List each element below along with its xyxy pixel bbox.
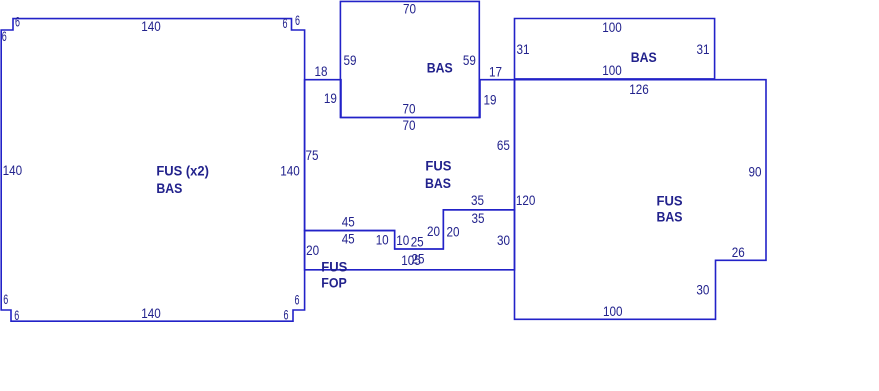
- svg-text:45: 45: [342, 213, 355, 229]
- svg-text:59: 59: [463, 52, 476, 68]
- svg-text:100: 100: [602, 62, 622, 78]
- svg-text:30: 30: [696, 281, 709, 297]
- svg-text:126: 126: [629, 81, 649, 97]
- svg-text:6: 6: [283, 15, 288, 31]
- svg-text:26: 26: [732, 244, 745, 260]
- svg-text:BAS: BAS: [425, 175, 451, 191]
- svg-text:6: 6: [3, 291, 8, 307]
- svg-text:FUS (x2): FUS (x2): [156, 163, 209, 179]
- svg-text:19: 19: [484, 92, 497, 108]
- svg-text:70: 70: [403, 101, 416, 117]
- svg-text:10: 10: [396, 232, 409, 248]
- svg-text:100: 100: [603, 303, 623, 319]
- svg-text:140: 140: [141, 18, 161, 34]
- svg-text:18: 18: [315, 63, 328, 79]
- svg-text:19: 19: [324, 90, 337, 106]
- svg-text:10: 10: [376, 232, 389, 248]
- svg-text:FUS: FUS: [321, 259, 347, 275]
- svg-text:FUS: FUS: [657, 193, 683, 209]
- svg-text:BAS: BAS: [156, 180, 182, 196]
- svg-text:120: 120: [516, 192, 536, 208]
- svg-text:BAS: BAS: [631, 49, 657, 65]
- svg-text:6: 6: [15, 14, 20, 30]
- svg-text:35: 35: [471, 192, 484, 208]
- svg-text:75: 75: [306, 147, 319, 163]
- svg-text:6: 6: [14, 307, 19, 323]
- svg-text:31: 31: [697, 41, 710, 57]
- svg-text:FUS: FUS: [425, 158, 451, 174]
- svg-text:140: 140: [280, 162, 300, 178]
- svg-text:100: 100: [602, 19, 622, 35]
- svg-text:90: 90: [749, 163, 762, 179]
- svg-text:30: 30: [497, 232, 510, 248]
- svg-text:BAS: BAS: [427, 60, 453, 76]
- svg-text:45: 45: [342, 231, 355, 247]
- svg-text:140: 140: [3, 162, 23, 178]
- svg-text:6: 6: [284, 306, 289, 322]
- svg-text:20: 20: [427, 223, 440, 239]
- svg-text:20: 20: [447, 223, 460, 239]
- svg-text:59: 59: [344, 52, 357, 68]
- svg-text:FOP: FOP: [321, 275, 347, 291]
- svg-text:105: 105: [401, 252, 421, 268]
- svg-text:70: 70: [403, 117, 416, 133]
- svg-text:65: 65: [497, 137, 510, 153]
- svg-text:35: 35: [472, 210, 485, 226]
- svg-text:6: 6: [2, 28, 7, 44]
- svg-text:31: 31: [517, 41, 530, 57]
- svg-text:20: 20: [306, 242, 319, 258]
- svg-text:140: 140: [141, 305, 161, 321]
- svg-text:6: 6: [295, 12, 300, 28]
- svg-text:BAS: BAS: [657, 209, 683, 225]
- svg-text:17: 17: [489, 64, 502, 80]
- svg-text:25: 25: [411, 233, 424, 249]
- svg-text:70: 70: [403, 1, 416, 17]
- svg-text:6: 6: [295, 291, 300, 307]
